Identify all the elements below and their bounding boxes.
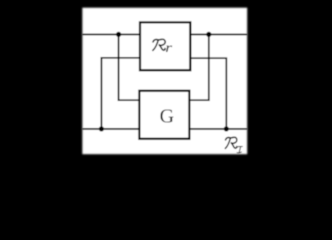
- wire top rail right segment: [190, 33, 247, 35]
- block G: [139, 91, 189, 139]
- node C junction dot: [99, 126, 104, 131]
- wire from node B down to G right port: [189, 34, 208, 100]
- label R_I subscript script I: [237, 146, 242, 152]
- wire bottom rail right segment: [189, 128, 247, 130]
- wire top rail left segment: [82, 33, 140, 35]
- wire from node A down to G left input: [119, 34, 140, 100]
- wire bottom rail left segment: [82, 128, 139, 130]
- block R_r: [140, 22, 190, 70]
- label R_I calligraphic R: [225, 137, 237, 148]
- wire from node D up to R_r right port: [190, 58, 226, 129]
- label R_r calligraphic R: [153, 39, 165, 50]
- svg-text:G: G: [160, 106, 174, 128]
- node B junction dot: [206, 32, 211, 37]
- wire from node C up to R_r left port: [101, 58, 140, 129]
- figure background: [82, 8, 247, 155]
- svg-text:r: r: [165, 41, 173, 56]
- node A junction dot: [116, 32, 121, 37]
- node D junction dot: [224, 126, 229, 131]
- label R_r subscript r: [165, 41, 173, 56]
